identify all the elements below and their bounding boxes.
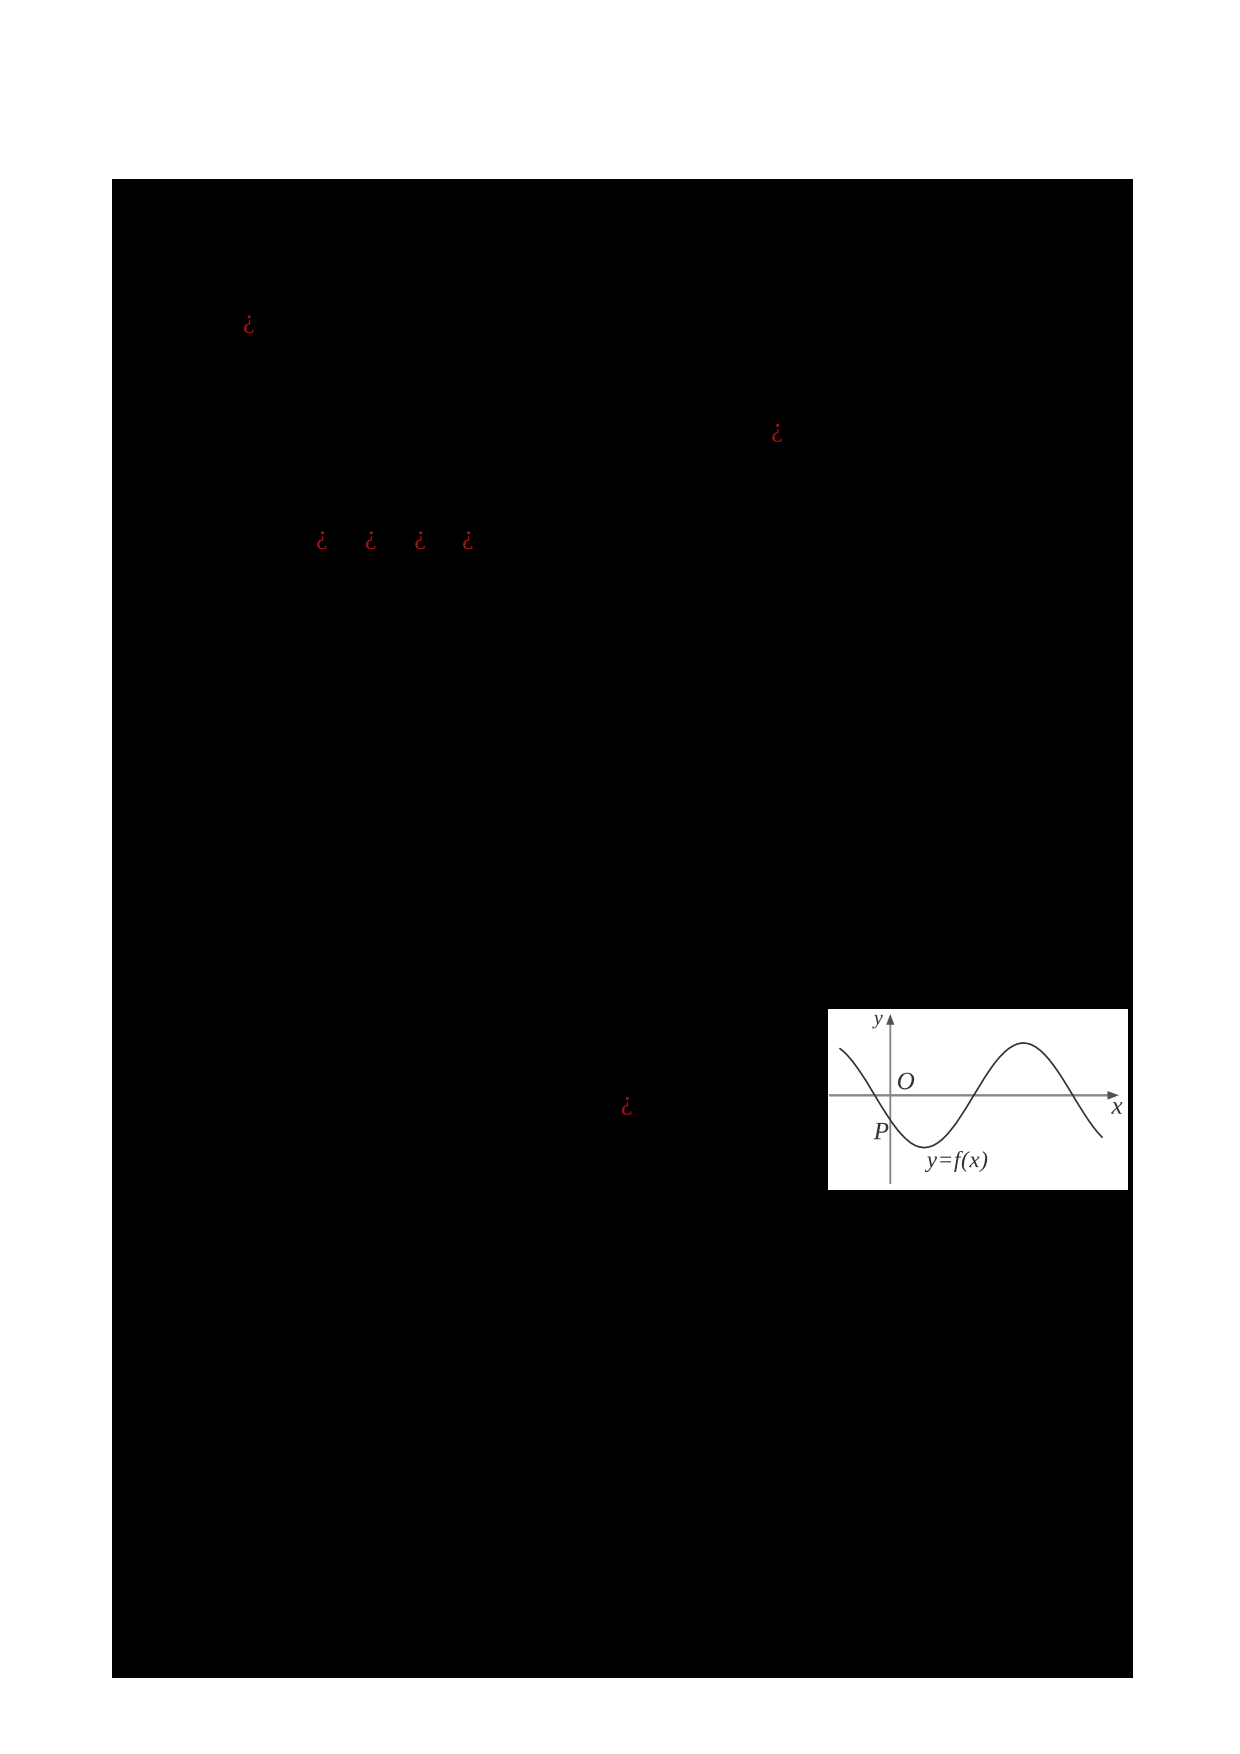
placeholder glyph 6 (463, 531, 472, 549)
black page body (failed document render block) (112, 179, 1133, 1678)
label O (898, 1073, 914, 1090)
white inset figure: graph of y=f(x) (828, 1009, 1128, 1190)
x-axis (829, 1094, 1109, 1096)
label P (874, 1123, 889, 1139)
placeholder glyph 5 (415, 531, 424, 549)
x-axis arrowhead (1108, 1091, 1120, 1100)
placeholder glyph 4 (366, 531, 375, 549)
curve y=f(x) (839, 1043, 1102, 1148)
y-axis (889, 1022, 891, 1184)
placeholder glyph 7 (622, 1097, 631, 1115)
placeholder glyph 1 (244, 315, 253, 333)
placeholder glyph 2 (772, 424, 781, 442)
label y=f(x) (925, 1157, 937, 1173)
label x (1111, 1102, 1122, 1113)
placeholder glyph 3 (317, 531, 326, 549)
y-axis arrowhead (886, 1014, 894, 1025)
label y (872, 1015, 883, 1028)
